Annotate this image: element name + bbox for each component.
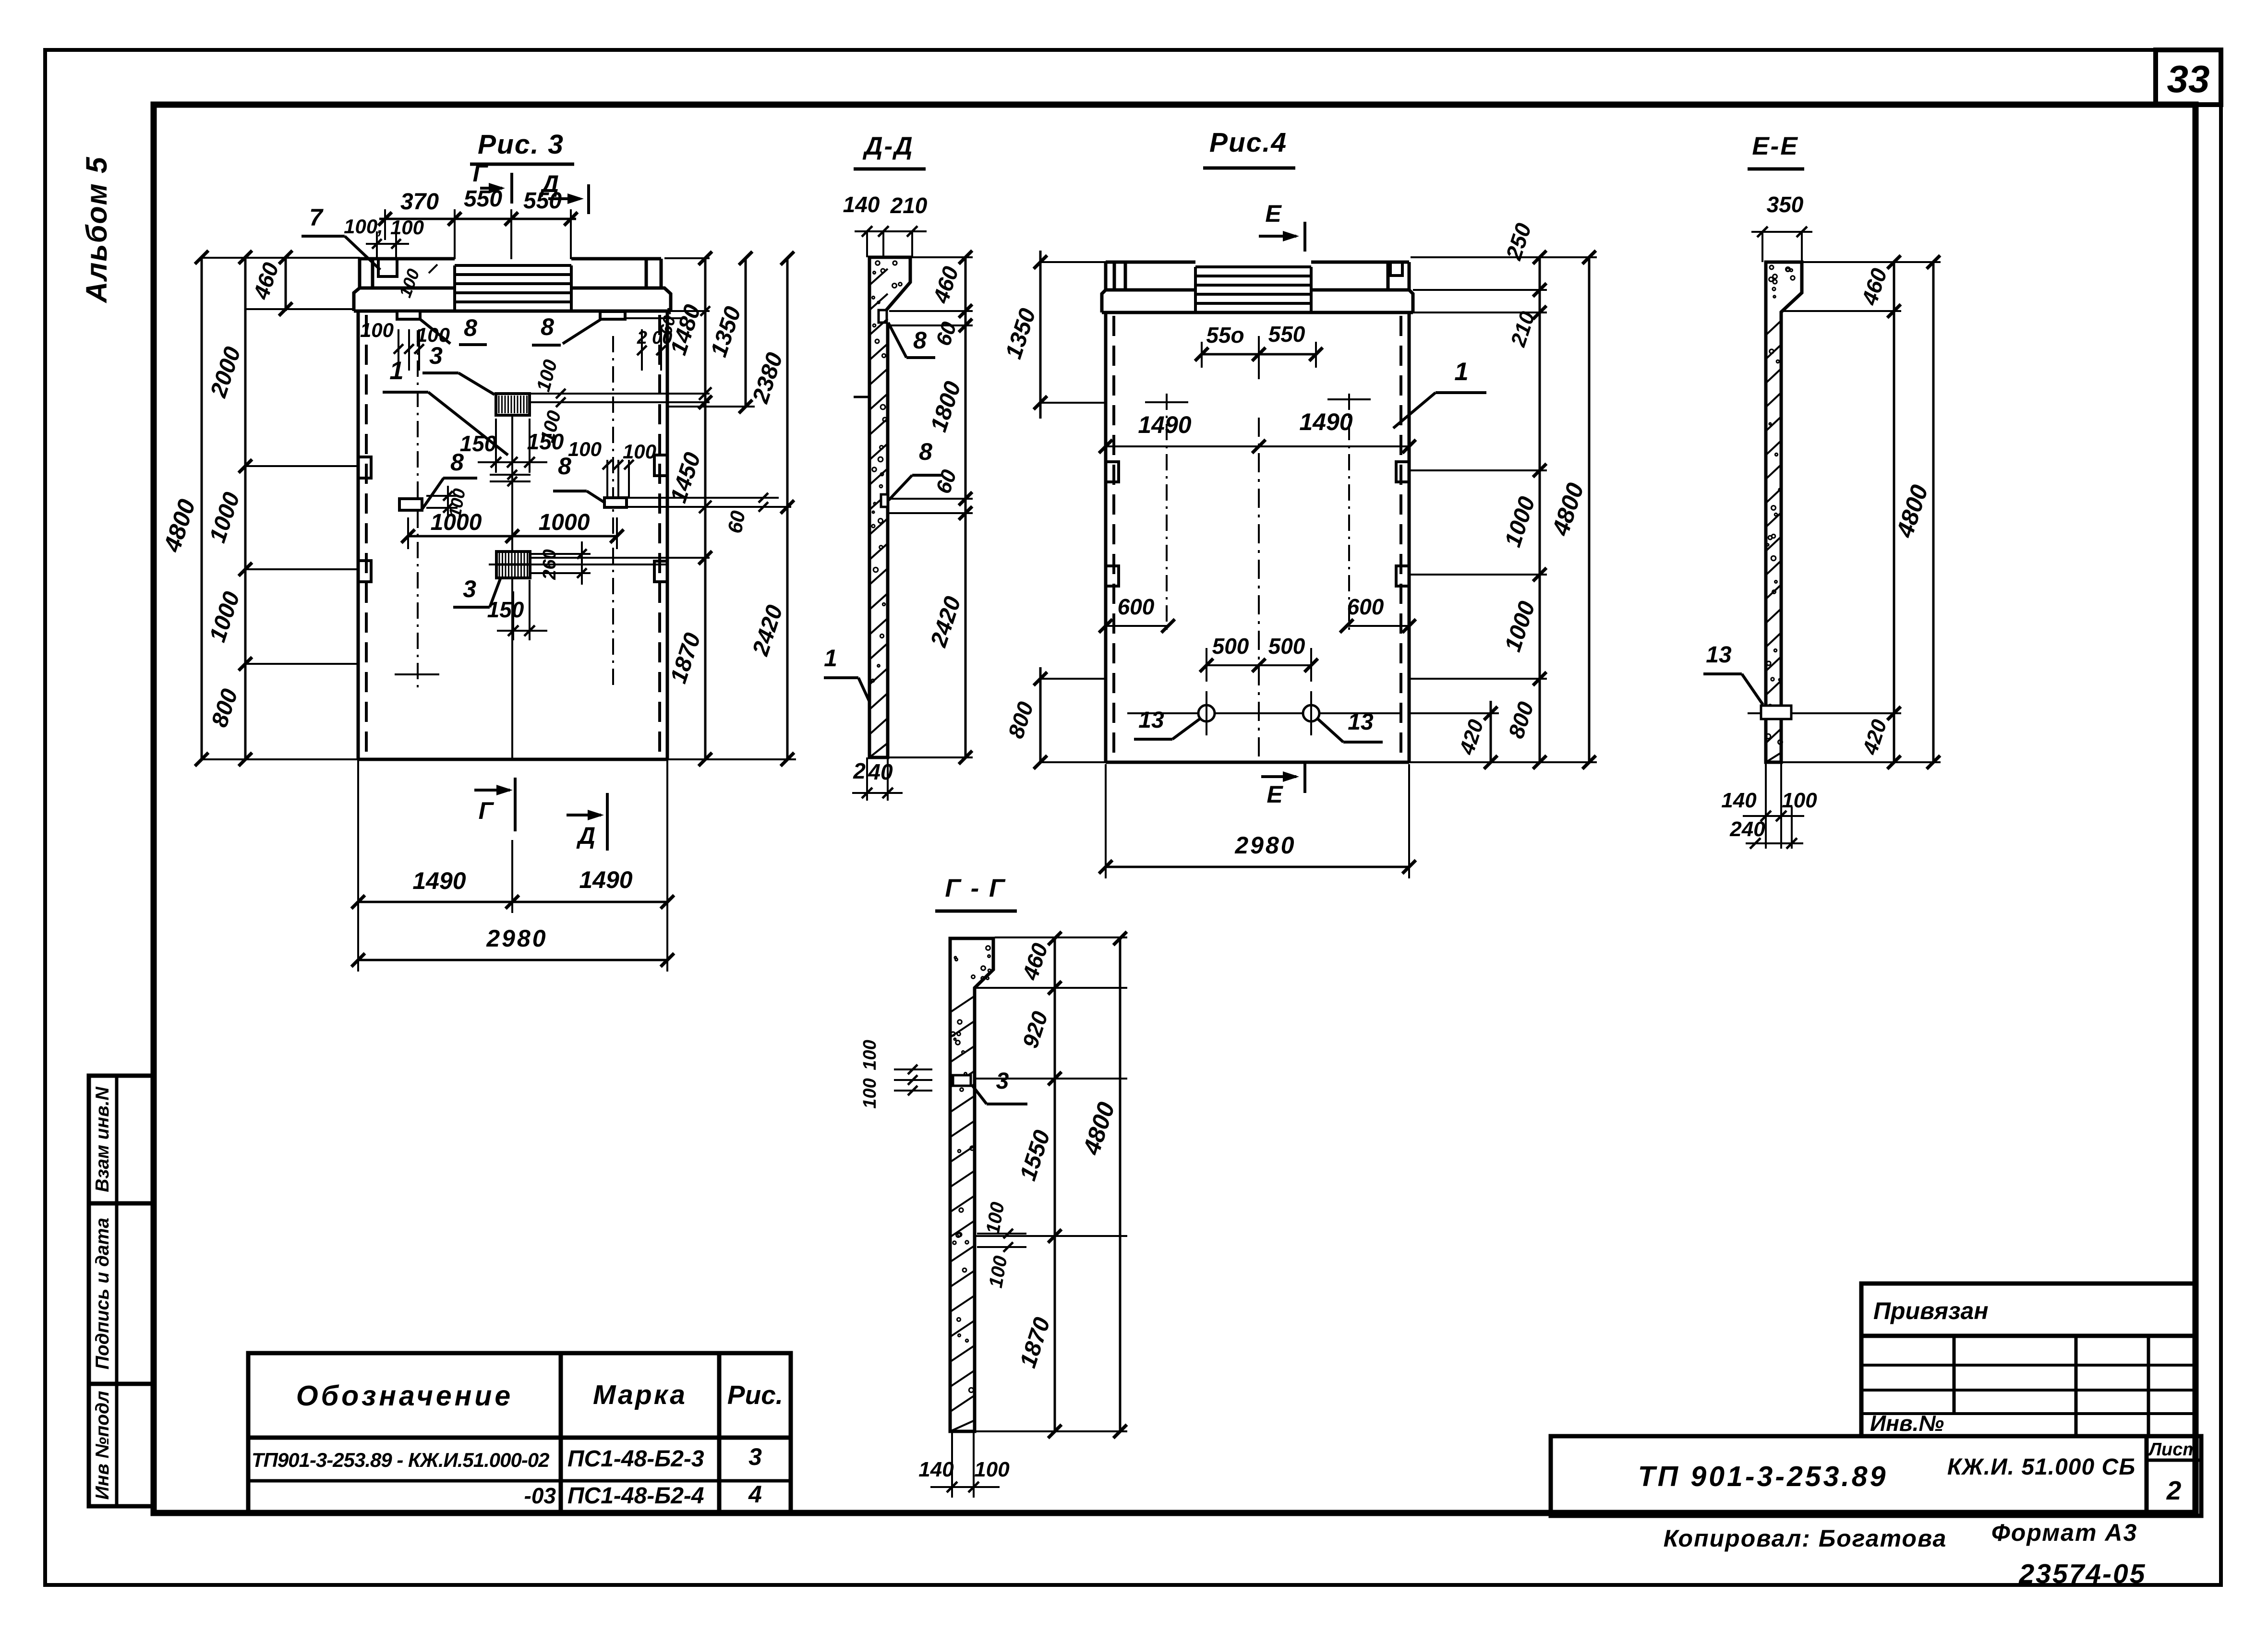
svg-text:2: 2 bbox=[853, 758, 866, 783]
fig3 left outer dimension chain 4800 bbox=[201, 257, 203, 759]
fig3 middle anchor cross ticks left bbox=[426, 495, 458, 497]
sheet number box 33 bbox=[2156, 50, 2221, 105]
svg-text:500: 500 bbox=[1212, 634, 1249, 659]
svg-text:1490: 1490 bbox=[1138, 411, 1191, 438]
svg-text:-03: -03 bbox=[524, 1483, 556, 1508]
fig4 centre axis dash-dot bbox=[1258, 418, 1260, 758]
fig4 corbel hatch slot bbox=[1194, 267, 1197, 312]
svg-text:Д-Д: Д-Д bbox=[862, 132, 914, 160]
svg-text:550: 550 bbox=[523, 188, 562, 214]
svg-text:1490: 1490 bbox=[412, 867, 466, 894]
svg-text:1: 1 bbox=[1454, 358, 1468, 386]
svg-text:8: 8 bbox=[464, 314, 477, 341]
section Г-Г extension lines bbox=[995, 936, 1127, 938]
fig4 bottom dimension 2980 bbox=[1105, 764, 1107, 878]
svg-text:Е-Е: Е-Е bbox=[1752, 132, 1798, 160]
fig3 head bottom extension to chain bbox=[671, 310, 710, 312]
svg-text:210: 210 bbox=[890, 193, 928, 218]
section Е-Е anchor 13 bbox=[1761, 706, 1791, 719]
fig3 lower embed plate 3 hatched bbox=[496, 552, 530, 578]
section Д-Д anchor notch lower (8) bbox=[881, 494, 888, 507]
svg-text:ПС1-48-Б2-3: ПС1-48-Б2-3 bbox=[567, 1446, 704, 1472]
svg-text:33: 33 bbox=[2167, 58, 2210, 100]
svg-text:100: 100 bbox=[568, 438, 602, 460]
fig3 line from lower plate to right edge bbox=[530, 564, 666, 565]
section Г-Г bottom dims 140/100 bbox=[951, 1431, 953, 1498]
svg-text:Инв.№: Инв.№ bbox=[1870, 1411, 1944, 1436]
fig3 centre axis line bbox=[511, 417, 513, 759]
svg-text:100: 100 bbox=[360, 319, 394, 341]
fig4 anchor axes dash-dot with crosses bbox=[1166, 394, 1168, 634]
title block upper table bbox=[1861, 1284, 2196, 1436]
section Г-Г concrete outline bbox=[950, 938, 993, 1431]
section Д-Д concrete dots bbox=[871, 261, 902, 682]
svg-text:Взам инв.N: Взам инв.N bbox=[92, 1086, 113, 1192]
fig4 right chain 4800 bbox=[1588, 257, 1591, 762]
fig3 corbel hatch slot with horizontal lines bbox=[453, 265, 456, 311]
section Г-Г right chain 460/920/1550/1870 bbox=[1054, 938, 1056, 1431]
svg-text:Рис. 3: Рис. 3 bbox=[478, 129, 564, 160]
svg-text:100: 100 bbox=[860, 1078, 880, 1108]
svg-text:100: 100 bbox=[1782, 789, 1817, 812]
fig3 parapet notch square bbox=[378, 259, 397, 276]
fig3 bottom dimension 2980 bbox=[357, 913, 359, 972]
fig4 left chain 1350 bbox=[1039, 251, 1042, 419]
fig4 bottom section marker Е bbox=[1303, 763, 1306, 793]
svg-text:240: 240 bbox=[1729, 817, 1765, 841]
svg-text:100: 100 bbox=[860, 1040, 880, 1070]
section Е-Е bottom dims 140/100/240 bbox=[1765, 762, 1767, 849]
svg-text:Подпись и дата: Подпись и дата bbox=[92, 1218, 113, 1369]
svg-text:370: 370 bbox=[400, 189, 439, 215]
svg-text:Г: Г bbox=[473, 160, 489, 187]
section Г-Г right chain 4800 bbox=[1119, 938, 1122, 1431]
svg-text:1490: 1490 bbox=[1299, 408, 1352, 435]
svg-text:Рис.4: Рис.4 bbox=[1209, 127, 1287, 158]
svg-text:Е: Е bbox=[1267, 781, 1283, 808]
fig3 left extension lines bbox=[202, 257, 360, 259]
fig3 left small chain 460 bbox=[285, 257, 287, 311]
svg-text:1490: 1490 bbox=[579, 866, 632, 893]
section Д-Д anchor notch top (8) bbox=[879, 310, 887, 323]
svg-text:8: 8 bbox=[450, 449, 464, 476]
fig3 bottom dimension 1490/1490 bbox=[357, 759, 359, 913]
svg-text:140: 140 bbox=[843, 192, 880, 217]
section Д-Д right chain 460/60/1800/60/2420 bbox=[965, 257, 967, 757]
svg-text:3: 3 bbox=[748, 1443, 762, 1470]
svg-text:260: 260 bbox=[540, 549, 560, 580]
fig4 dimension 600 left bbox=[1106, 625, 1168, 627]
svg-text:150: 150 bbox=[527, 429, 564, 454]
svg-text:8: 8 bbox=[913, 327, 927, 354]
fig3 body outline bbox=[357, 311, 360, 759]
svg-text:60: 60 bbox=[724, 509, 749, 535]
fig4 dimension 600 right bbox=[1347, 625, 1409, 627]
fig3 parapet top extension to chain bbox=[664, 257, 710, 259]
svg-text:550: 550 bbox=[464, 186, 502, 212]
fig3 small lines under plate with 100 label bbox=[490, 474, 531, 476]
title block main bar bbox=[1551, 1436, 2201, 1516]
section Г-Г right lower dims 100/100 bbox=[977, 1233, 1026, 1235]
svg-text:Инв №подл: Инв №подл bbox=[92, 1391, 113, 1500]
svg-text:Рис.: Рис. bbox=[727, 1380, 783, 1410]
fig4 right small chain 420 bbox=[1490, 701, 1492, 762]
svg-text:КЖ.И. 51.000 СБ: КЖ.И. 51.000 СБ bbox=[1947, 1454, 2135, 1480]
fig3 bottom section marker Д bbox=[606, 793, 609, 851]
svg-text:600: 600 bbox=[1347, 594, 1384, 619]
fig3 chain extension line to right at plate level bbox=[530, 557, 710, 559]
fig3 bottom section marker Г bbox=[514, 778, 517, 831]
svg-text:Лист: Лист bbox=[2147, 1440, 2199, 1460]
fig3 left inner dimension chain 2000/1000/1000/800 bbox=[244, 257, 247, 759]
section Д-Д concrete outline bbox=[869, 257, 910, 757]
fig3 top anchor plate left (8) bbox=[397, 311, 420, 319]
svg-text:100: 100 bbox=[623, 440, 656, 463]
svg-text:1000: 1000 bbox=[539, 510, 590, 535]
fig3 panel parapet outline bbox=[360, 257, 455, 261]
svg-text:ПС1-48-Б2-4: ПС1-48-Б2-4 bbox=[567, 1483, 704, 1509]
section Е-Е right chain 4800 bbox=[1932, 262, 1935, 762]
svg-text:55o: 55o bbox=[1206, 323, 1244, 348]
fig3 inner dashed contour lines bbox=[365, 315, 368, 756]
svg-text:8: 8 bbox=[541, 313, 554, 340]
svg-text:100: 100 bbox=[974, 1458, 1010, 1481]
fig3 extension lines from upper plate with 100 dims bbox=[530, 393, 710, 395]
fig3 leader 8 middle-left bbox=[422, 478, 444, 509]
svg-text:Е: Е bbox=[1265, 200, 1282, 227]
section Д-Д hatching bbox=[869, 269, 888, 757]
fig4 dimension 500/500 bbox=[1206, 664, 1311, 666]
section Е-Е hatching bbox=[1766, 321, 1781, 762]
svg-text:13: 13 bbox=[1348, 709, 1374, 735]
svg-text:150: 150 bbox=[487, 597, 524, 622]
fig3 leader 8 top-left bbox=[420, 319, 450, 344]
svg-text:600: 600 bbox=[1118, 594, 1155, 619]
fig3 dimension 1000/1000 centre line bbox=[408, 535, 617, 538]
fig4 panel parapet outline bbox=[1106, 261, 1195, 264]
svg-text:13: 13 bbox=[1706, 642, 1732, 668]
section Е-Е extension lines bbox=[1802, 261, 1941, 263]
svg-text:3: 3 bbox=[463, 576, 476, 602]
fig4 body edge notches bbox=[1106, 462, 1119, 482]
fig4 dimension 550/550 bbox=[1202, 353, 1316, 356]
fig4 body outline bbox=[1104, 312, 1108, 762]
fig3 body edge notches bbox=[358, 457, 371, 478]
svg-text:13: 13 bbox=[1138, 708, 1164, 733]
section Д-Д left tick bbox=[854, 396, 870, 398]
svg-text:3: 3 bbox=[429, 342, 443, 369]
fig3 leader 8 top-right bbox=[563, 319, 601, 344]
fig4 right extension lines bbox=[1411, 256, 1597, 258]
svg-text:2980: 2980 bbox=[486, 925, 547, 952]
svg-text:140: 140 bbox=[918, 1458, 954, 1481]
fig3 head band outline bbox=[354, 288, 360, 311]
svg-text:Копировал: Богатова: Копировал: Богатова bbox=[1664, 1525, 1947, 1552]
fig4 right chain 250/210/1000/1000/800 bbox=[1539, 257, 1541, 762]
section Г-Г keyway slot 3 bbox=[953, 1075, 971, 1086]
fig3 top anchor plate right (8) bbox=[600, 312, 625, 319]
section Г-Г concrete dots bbox=[951, 946, 991, 1392]
section Д-Д bottom dim 240 bbox=[866, 757, 868, 801]
svg-text:Г - Г: Г - Г bbox=[945, 874, 1006, 902]
fig4 head band outline bbox=[1102, 290, 1106, 312]
fig3 dimension 150/150 under upper plate bbox=[495, 419, 497, 473]
svg-text:350: 350 bbox=[1767, 192, 1804, 217]
svg-text:550: 550 bbox=[1268, 322, 1305, 347]
section Г-Г hatching bbox=[950, 996, 975, 1431]
svg-text:Альбом 5: Альбом 5 bbox=[80, 156, 113, 303]
svg-text:Привязан: Привязан bbox=[1873, 1297, 1989, 1324]
svg-text:7: 7 bbox=[309, 204, 324, 231]
fig3 dim 260 right of lower plate bbox=[530, 553, 591, 555]
fig3 upper embed plate 3 hatched bbox=[496, 394, 530, 415]
svg-text:500: 500 bbox=[1268, 634, 1305, 659]
svg-text:2980: 2980 bbox=[1234, 832, 1296, 859]
fig3 right chain 1350 bbox=[745, 258, 747, 407]
fig3 middle anchor plate right (8) bbox=[604, 498, 627, 507]
fig3 dimension line 370/550/550 bbox=[379, 218, 576, 220]
fig3 extension lines from right middle anchor with 60 dim bbox=[627, 497, 779, 499]
svg-text:Г: Г bbox=[479, 797, 495, 824]
svg-text:ТП 901-3-253.89: ТП 901-3-253.89 bbox=[1638, 1461, 1888, 1492]
svg-text:23574-05: 23574-05 bbox=[2019, 1559, 2147, 1589]
svg-text:40: 40 bbox=[868, 759, 893, 784]
svg-text:Марка: Марка bbox=[593, 1380, 687, 1410]
left stamp column boxes bbox=[89, 1076, 154, 1506]
fig4 parapet notch square bbox=[1390, 262, 1402, 276]
svg-text:1: 1 bbox=[389, 357, 403, 385]
fig4 left chain 800 bbox=[1039, 667, 1042, 762]
section Г-Г left dims 100/100 bbox=[894, 1068, 932, 1070]
fig3 middle anchor plate left (8) bbox=[399, 499, 422, 510]
svg-text:ТП901-3-253.89 - КЖ.И.51.000-0: ТП901-3-253.89 - КЖ.И.51.000-02 bbox=[252, 1449, 549, 1471]
section Е-Е concrete outline bbox=[1766, 262, 1802, 762]
svg-text:2: 2 bbox=[2166, 1476, 2182, 1505]
svg-text:3: 3 bbox=[996, 1068, 1009, 1094]
svg-text:Д: Д bbox=[576, 822, 595, 849]
drawing frame bbox=[154, 105, 2196, 1513]
section Е-Е concrete dots bbox=[1766, 265, 1795, 744]
fig3 right chain 1480/1450/1870 bbox=[704, 258, 707, 759]
fig4 inner dashed contour lines bbox=[1112, 316, 1115, 758]
svg-text:Формат А3: Формат А3 bbox=[1991, 1519, 2138, 1546]
specification table frame bbox=[248, 1353, 791, 1513]
svg-text:8: 8 bbox=[919, 438, 932, 465]
section Е-Е right chain 460/420 bbox=[1893, 262, 1895, 762]
fig3 right chain 2380/2420 bbox=[786, 258, 789, 759]
svg-text:1000: 1000 bbox=[431, 510, 482, 535]
fig3 anchor axes dash-dot bbox=[417, 330, 419, 690]
fig4 lifting loop holes 13 bbox=[1127, 712, 1401, 714]
svg-text:4: 4 bbox=[748, 1481, 762, 1508]
section Д-Д extension lines bbox=[910, 256, 973, 258]
svg-text:140: 140 bbox=[1721, 789, 1757, 812]
svg-text:Обозначение: Обозначение bbox=[296, 1380, 513, 1412]
svg-text:1: 1 bbox=[824, 645, 837, 672]
